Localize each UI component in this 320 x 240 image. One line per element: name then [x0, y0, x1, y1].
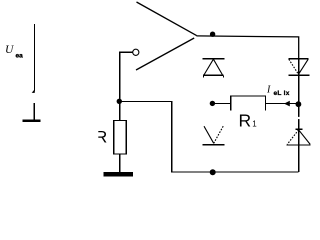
- junction dot left of R1 (node C): [210, 101, 215, 106]
- op-amp inverting input bubble: [133, 49, 139, 55]
- wire node A to ground bus: [120, 101, 299, 171]
- resistor R top lead: [119, 101, 121, 120]
- svg-text:ea: ea: [16, 53, 24, 60]
- voltage source arrowhead: [32, 89, 35, 93]
- diode D4 triangle sides: [299, 130, 311, 145]
- right column wire through diodes: [298, 59, 300, 172]
- diode D1 triangle: [204, 59, 223, 75]
- wire from inverting input down to node A: [120, 52, 133, 101]
- diode D2 cathode bar: [203, 144, 225, 146]
- op-amp output wire to right column: [196, 36, 298, 59]
- diode D2 (middle bottom, pointing down, no top edge): [204, 126, 214, 143]
- junction dot on output wire (node B): [210, 32, 215, 37]
- ground (left, below source): [33, 103, 35, 120]
- diode D4 base line: [286, 144, 310, 146]
- ground (below resistor R): [104, 172, 134, 176]
- diode D1 (middle top, pointing up) cathode bar: [203, 58, 225, 60]
- svg-text:I: I: [266, 85, 271, 96]
- resistor R1 body (open bottom): [231, 96, 266, 111]
- svg-text:1: 1: [252, 120, 257, 129]
- voltage source arrow Ue: [34, 24, 36, 92]
- junction dot on ground bus: [210, 169, 216, 175]
- R1 right wire: [265, 103, 298, 105]
- op-amp U1 top edge: [137, 2, 197, 36]
- diode D3 cathode bar: [289, 74, 310, 76]
- R1 left wire: [215, 102, 231, 104]
- resistor R bottom lead: [119, 154, 121, 172]
- op-amp U1 bottom edge: [136, 38, 194, 70]
- junction dot right column (node D): [296, 101, 302, 107]
- diode D3 (right top, pointing down) top edge: [288, 58, 308, 60]
- svg-text:R: R: [239, 110, 252, 130]
- node A junction dot: [117, 99, 122, 104]
- diode D3 triangle sides: [299, 59, 309, 74]
- resistor R body: [114, 121, 127, 155]
- scan nick in right column wire: [298, 117, 300, 119]
- current arrow on R1 right wire: [284, 101, 290, 107]
- svg-text:U: U: [5, 44, 14, 56]
- svg-text:eL Ix: eL Ix: [274, 90, 290, 97]
- diode D4 (right bottom, pointing up) cathode tick: [295, 128, 302, 130]
